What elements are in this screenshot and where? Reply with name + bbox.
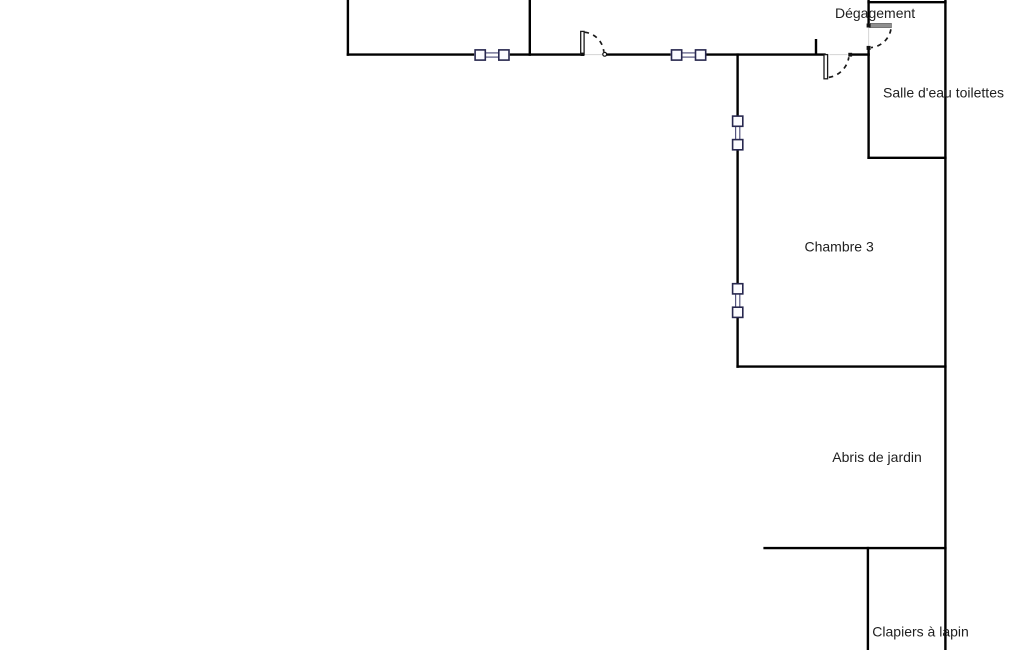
- wall horizontal top segment 4: [706, 53, 825, 55]
- door D1 swing arc: [585, 32, 604, 52]
- wall left vertical room1: [347, 0, 349, 56]
- wall degagement top: [867, 1, 946, 3]
- wall degagement left upper: [867, 0, 869, 25]
- door D1 opening line: [585, 54, 603, 56]
- window W4 connecting bars: [736, 295, 740, 307]
- door D2 hinge square top: [867, 24, 871, 28]
- window W4 square bottom: [733, 307, 743, 317]
- wall chambre3 left middle: [736, 150, 738, 283]
- door D2 leaf gray bar: [870, 23, 892, 27]
- door D3 leaf: [824, 55, 828, 79]
- window W2 square left: [672, 50, 682, 60]
- wall salle d'eau left: [867, 48, 869, 159]
- wall horizontal top segment 1: [347, 53, 475, 55]
- wall chambre3 left upper: [736, 53, 738, 115]
- window W1 square left: [475, 50, 485, 60]
- window W2 connecting bars: [682, 53, 695, 57]
- wall chambre3 left lower: [736, 318, 738, 368]
- wall horizontal top segment 3: [605, 53, 671, 55]
- wall clapiers left: [867, 547, 869, 650]
- wall chambre3 bottom: [736, 365, 946, 367]
- door D3 swing arc: [829, 57, 849, 77]
- door D2 opening line: [868, 28, 870, 47]
- svg-text:Clapiers à lapin: Clapiers à lapin: [872, 623, 969, 639]
- wall horizontal top segment 5: [850, 53, 870, 55]
- wall vertical room divider x=530: [529, 0, 531, 56]
- wall right exterior: [944, 0, 946, 650]
- wall abris bottom: [763, 547, 946, 549]
- door D2 jamb square bottom: [867, 46, 871, 50]
- window W3 connecting bars: [736, 127, 740, 139]
- wall salle d'eau bottom: [867, 157, 946, 159]
- door D3 latch square: [848, 53, 852, 57]
- window W3 square bottom: [733, 140, 743, 150]
- wall horizontal top segment 2: [510, 53, 582, 55]
- window W4 square top: [733, 284, 743, 294]
- svg-text:Abris de jardin: Abris de jardin: [832, 449, 922, 465]
- door D3 opening line: [830, 54, 848, 56]
- window W3 square top: [733, 116, 743, 126]
- door D1 leaf: [581, 31, 584, 55]
- svg-text:Salle d'eau toilettes: Salle d'eau toilettes: [883, 85, 1004, 101]
- wall stub x=816: [815, 39, 817, 55]
- door D1 hinge dot: [581, 53, 584, 56]
- window W1 square right: [499, 50, 509, 60]
- window W1 connecting bars: [486, 53, 498, 57]
- svg-text:Dégagement: Dégagement: [835, 5, 915, 21]
- svg-text:Chambre 3: Chambre 3: [805, 239, 874, 255]
- door D1 latch circle: [603, 52, 607, 56]
- door D2 swing arc: [871, 29, 891, 47]
- window W2 square right: [696, 50, 706, 60]
